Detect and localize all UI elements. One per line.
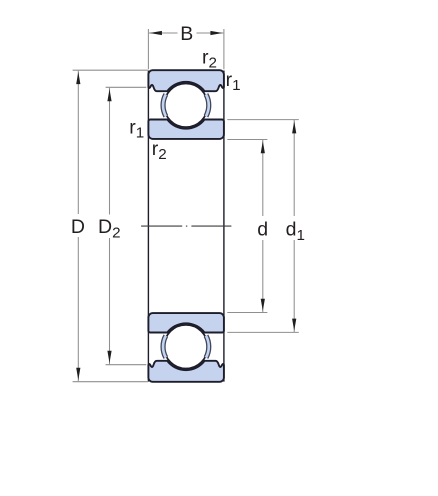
svg-text:B: B <box>180 23 193 45</box>
svg-text:r1: r1 <box>226 69 241 94</box>
svg-text:d: d <box>257 219 268 241</box>
svg-text:r1: r1 <box>129 117 144 142</box>
svg-text:D2: D2 <box>98 216 121 241</box>
svg-text:D: D <box>71 216 85 238</box>
svg-text:r2: r2 <box>152 138 167 163</box>
svg-text:d1: d1 <box>286 219 305 244</box>
svg-text:r2: r2 <box>202 47 217 72</box>
